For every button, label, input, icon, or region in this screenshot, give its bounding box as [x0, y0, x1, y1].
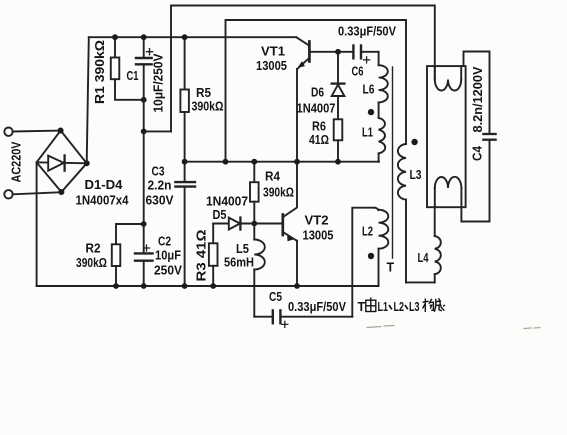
node phasing dot L2	[368, 253, 374, 259]
wire midpoint top rail	[171, 6, 435, 132]
capacitor C3	[184, 162, 186, 182]
svg-text:10μF: 10μF	[155, 249, 181, 263]
svg-text:D6: D6	[311, 86, 324, 100]
svg-text:1N4007: 1N4007	[206, 195, 248, 209]
label T composition caption	[358, 298, 445, 315]
svg-text:D1-D4: D1-D4	[85, 178, 123, 192]
svg-text:L6: L6	[363, 83, 375, 97]
svg-text:C1: C1	[127, 69, 139, 83]
svg-text:VT1: VT1	[261, 45, 285, 59]
svg-text:L4: L4	[418, 251, 429, 265]
svg-text:C5: C5	[269, 290, 282, 304]
svg-text:13005: 13005	[303, 229, 334, 243]
svg-text:L5: L5	[236, 242, 249, 256]
svg-text:VT2: VT2	[305, 214, 329, 228]
svg-text:C6: C6	[352, 65, 364, 79]
svg-text:41Ω: 41Ω	[309, 133, 329, 147]
svg-text:AC220V: AC220V	[10, 141, 24, 183]
svg-text:390kΩ: 390kΩ	[76, 256, 107, 270]
fluorescent tube	[427, 66, 466, 207]
resistor R4	[253, 162, 255, 183]
wire	[13, 192, 62, 194]
wire half-bridge mid to lamp rail	[226, 20, 407, 162]
svg-text:L2: L2	[394, 300, 405, 314]
inductor L6	[378, 52, 380, 65]
resistor R1	[114, 37, 116, 57]
node AC terminal bottom	[4, 190, 12, 198]
svg-text:T: T	[387, 261, 395, 275]
svg-text:13005: 13005	[256, 59, 287, 73]
wire mid node rail	[185, 161, 379, 163]
inductor L2	[352, 208, 374, 317]
diode D6	[337, 52, 339, 84]
svg-text:L3: L3	[410, 168, 422, 182]
resistor R2	[116, 224, 144, 244]
wire DC- drop	[36, 162, 38, 286]
svg-text:0.33μF/50V: 0.33μF/50V	[338, 25, 397, 39]
resistor R3	[212, 224, 214, 244]
tube top filament	[434, 66, 436, 79]
svg-text:C4: C4	[471, 146, 485, 161]
svg-text:56mH: 56mH	[224, 256, 254, 270]
svg-text:T: T	[358, 300, 366, 314]
inductor L1	[379, 118, 386, 153]
node phasing dot L3	[411, 139, 417, 145]
svg-text:C3: C3	[152, 165, 165, 179]
svg-text:10μF/250V: 10μF/250V	[152, 53, 166, 113]
transistor VT2	[281, 215, 284, 236]
capacitor C1	[143, 37, 145, 57]
wire	[13, 130, 61, 133]
svg-text:0.33μF/50V: 0.33μF/50V	[288, 300, 347, 314]
diode D5	[213, 223, 229, 225]
svg-text:D5: D5	[213, 208, 227, 222]
transformer core T	[392, 67, 394, 258]
svg-text:R3 41Ω: R3 41Ω	[195, 230, 209, 282]
wire	[378, 102, 380, 118]
tube bottom filament	[435, 177, 462, 188]
svg-text:R2: R2	[86, 242, 101, 256]
svg-text:R1 390kΩ: R1 390kΩ	[93, 40, 107, 104]
node AC terminal top	[4, 128, 12, 136]
wire C1-C2 column	[143, 131, 145, 224]
svg-text:250V: 250V	[154, 264, 183, 278]
svg-text:1N4007: 1N4007	[297, 102, 336, 116]
resistor R6	[334, 119, 343, 140]
smudge	[367, 326, 540, 329]
svg-text:8.2n/1200V: 8.2n/1200V	[471, 66, 485, 133]
wire DC+ riser	[87, 37, 89, 163]
svg-text:1N4007x4: 1N4007x4	[76, 194, 129, 208]
svg-text:630V: 630V	[146, 194, 175, 208]
svg-text:R5: R5	[196, 86, 211, 100]
node phasing dot L6/L1	[368, 109, 374, 115]
svg-text:R6: R6	[312, 120, 326, 134]
svg-text:390kΩ: 390kΩ	[192, 100, 224, 114]
svg-text:390kΩ: 390kΩ	[263, 186, 294, 200]
transistor VT1	[296, 37, 308, 45]
capacitor C2	[143, 224, 145, 253]
svg-text:C2: C2	[158, 235, 171, 249]
capacitor C4	[464, 52, 490, 134]
inductor L5	[253, 224, 255, 240]
bridge rectifier D1-D4	[37, 131, 87, 193]
resistor R5	[184, 37, 186, 89]
inductor L4	[434, 274, 436, 282]
wire L3-L4 bottom link	[406, 281, 435, 283]
svg-text:2.2n: 2.2n	[148, 179, 172, 193]
svg-text:L1: L1	[362, 126, 373, 140]
inductor L3	[398, 144, 406, 200]
wire C1 bottom link	[144, 130, 171, 132]
wire bottom rail	[37, 285, 379, 287]
capacitor C5	[253, 286, 255, 317]
capacitor C6	[352, 46, 354, 59]
wire VT1 base line	[310, 51, 353, 53]
wire +bus rail	[89, 36, 296, 38]
svg-text:L2: L2	[362, 225, 373, 239]
svg-text:R4: R4	[265, 170, 280, 184]
svg-text:L3: L3	[409, 300, 420, 314]
svg-text:L1: L1	[378, 300, 389, 314]
